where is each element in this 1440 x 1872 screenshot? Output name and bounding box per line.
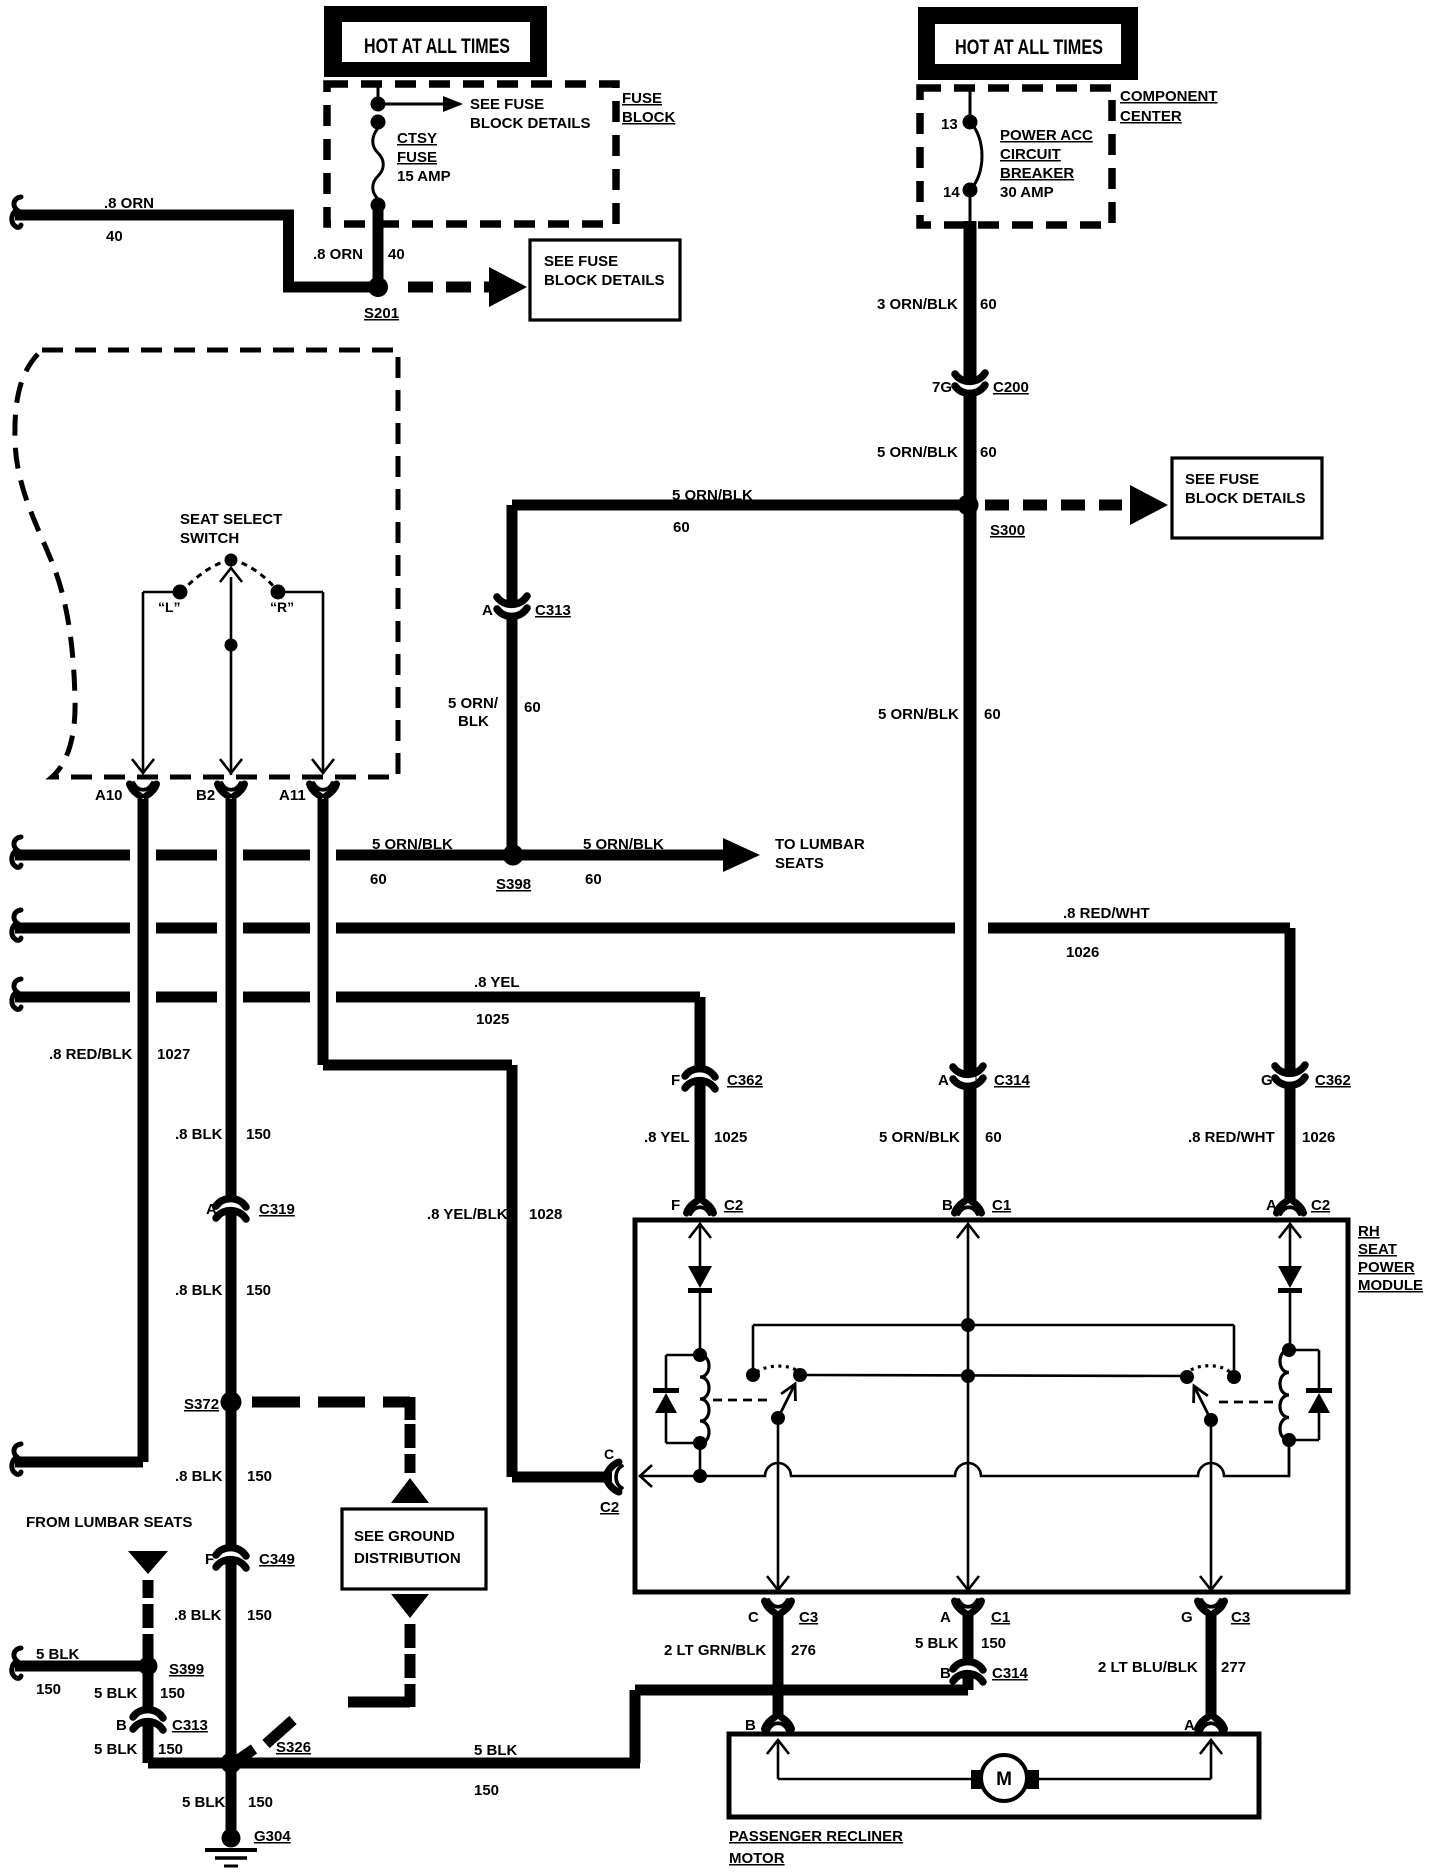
svg-text:.8 YEL: .8 YEL <box>644 1129 690 1146</box>
svg-text:150: 150 <box>247 1607 272 1624</box>
svg-text:13: 13 <box>941 116 958 133</box>
svg-text:POWER: POWER <box>1358 1259 1415 1276</box>
svg-text:C314: C314 <box>994 1072 1031 1089</box>
svg-text:B: B <box>116 1717 127 1734</box>
svg-text:POWER ACC: POWER ACC <box>1000 127 1093 144</box>
svg-text:A11: A11 <box>279 787 306 804</box>
svg-text:“R”: “R” <box>270 599 294 615</box>
svg-text:2 LT BLU/BLK: 2 LT BLU/BLK <box>1098 1659 1198 1676</box>
svg-text:276: 276 <box>791 1642 816 1659</box>
svg-text:“L”: “L” <box>158 599 181 615</box>
svg-text:150: 150 <box>160 1685 185 1702</box>
svg-text:.8 YEL: .8 YEL <box>474 974 520 991</box>
svg-text:FUSE: FUSE <box>397 149 437 166</box>
svg-text:5 BLK: 5 BLK <box>36 1646 80 1663</box>
svg-text:B: B <box>942 1197 953 1214</box>
svg-text:5 ORN/BLK: 5 ORN/BLK <box>583 836 664 853</box>
svg-text:C1: C1 <box>991 1609 1010 1626</box>
svg-text:5 ORN/BLK: 5 ORN/BLK <box>372 836 453 853</box>
svg-text:BLK: BLK <box>458 713 489 730</box>
svg-text:C: C <box>604 1446 614 1462</box>
svg-text:C314: C314 <box>992 1665 1029 1682</box>
svg-text:150: 150 <box>158 1741 183 1758</box>
svg-text:S398: S398 <box>496 876 531 893</box>
svg-text:40: 40 <box>106 228 123 245</box>
svg-text:1026: 1026 <box>1302 1129 1335 1146</box>
svg-text:SEAT SELECT: SEAT SELECT <box>180 511 282 528</box>
svg-text:A: A <box>938 1072 949 1089</box>
svg-text:MOTOR: MOTOR <box>729 1850 785 1867</box>
svg-text:C: C <box>748 1609 759 1626</box>
svg-text:5 BLK: 5 BLK <box>94 1741 138 1758</box>
svg-text:5 BLK: 5 BLK <box>182 1794 226 1811</box>
svg-text:SEE FUSE: SEE FUSE <box>1185 471 1259 488</box>
svg-text:C200: C200 <box>993 379 1029 396</box>
svg-text:60: 60 <box>984 706 1001 723</box>
svg-text:HOT AT ALL TIMES: HOT AT ALL TIMES <box>955 36 1103 59</box>
svg-text:B2: B2 <box>196 787 215 804</box>
svg-text:A: A <box>206 1201 217 1218</box>
svg-text:.8 ORN: .8 ORN <box>104 195 154 212</box>
svg-text:60: 60 <box>980 444 997 461</box>
svg-text:COMPONENT: COMPONENT <box>1120 88 1218 105</box>
svg-text:5 ORN/BLK: 5 ORN/BLK <box>672 487 753 504</box>
svg-text:MODULE: MODULE <box>1358 1277 1423 1294</box>
svg-text:C2: C2 <box>1311 1197 1330 1214</box>
svg-text:C349: C349 <box>259 1551 295 1568</box>
svg-text:A: A <box>940 1609 951 1626</box>
svg-text:BLOCK DETAILS: BLOCK DETAILS <box>1185 490 1306 507</box>
svg-text:14: 14 <box>943 184 960 201</box>
svg-text:BREAKER: BREAKER <box>1000 165 1074 182</box>
svg-text:C362: C362 <box>1315 1072 1351 1089</box>
svg-text:S372: S372 <box>184 1396 219 1413</box>
svg-text:15 AMP: 15 AMP <box>397 168 451 185</box>
svg-text:5 ORN/: 5 ORN/ <box>448 695 499 712</box>
svg-text:FUSE: FUSE <box>622 90 662 107</box>
svg-text:1027: 1027 <box>157 1046 190 1063</box>
svg-text:.8 BLK: .8 BLK <box>175 1282 223 1299</box>
svg-text:5 BLK: 5 BLK <box>474 1742 518 1759</box>
svg-text:.8 YEL/BLK: .8 YEL/BLK <box>427 1206 508 1223</box>
svg-text:RH: RH <box>1358 1223 1380 1240</box>
svg-text:1025: 1025 <box>476 1011 509 1028</box>
svg-text:C1: C1 <box>992 1197 1011 1214</box>
svg-text:F: F <box>671 1072 680 1089</box>
svg-text:.8 RED/BLK: .8 RED/BLK <box>49 1046 133 1063</box>
svg-text:B: B <box>940 1665 951 1682</box>
svg-text:C2: C2 <box>600 1499 619 1516</box>
svg-text:5 BLK: 5 BLK <box>915 1635 959 1652</box>
svg-text:CTSY: CTSY <box>397 130 437 147</box>
svg-text:.8 RED/WHT: .8 RED/WHT <box>1188 1129 1275 1146</box>
svg-text:7G: 7G <box>932 379 952 396</box>
svg-text:TO LUMBAR: TO LUMBAR <box>775 836 865 853</box>
svg-text:5 ORN/BLK: 5 ORN/BLK <box>878 706 959 723</box>
svg-text:G304: G304 <box>254 1828 291 1845</box>
svg-text:A: A <box>1266 1197 1277 1214</box>
svg-text:A: A <box>1184 1717 1195 1734</box>
svg-text:C319: C319 <box>259 1201 295 1218</box>
svg-text:C2: C2 <box>724 1197 743 1214</box>
svg-text:.8 BLK: .8 BLK <box>174 1607 222 1624</box>
svg-text:F: F <box>205 1551 214 1568</box>
svg-text:.8 BLK: .8 BLK <box>175 1468 223 1485</box>
svg-text:BLOCK DETAILS: BLOCK DETAILS <box>470 115 591 132</box>
svg-text:.8 RED/WHT: .8 RED/WHT <box>1063 905 1150 922</box>
svg-text:SEATS: SEATS <box>775 855 824 872</box>
svg-text:SEE FUSE: SEE FUSE <box>544 253 618 270</box>
svg-text:60: 60 <box>585 871 602 888</box>
svg-text:F: F <box>671 1197 680 1214</box>
svg-text:DISTRIBUTION: DISTRIBUTION <box>354 1550 461 1567</box>
svg-text:60: 60 <box>985 1129 1002 1146</box>
svg-text:60: 60 <box>370 871 387 888</box>
svg-text:5 BLK: 5 BLK <box>94 1685 138 1702</box>
svg-text:1025: 1025 <box>714 1129 747 1146</box>
svg-text:60: 60 <box>980 296 997 313</box>
svg-text:B: B <box>745 1717 756 1734</box>
svg-text:SEAT: SEAT <box>1358 1241 1397 1258</box>
svg-text:C3: C3 <box>799 1609 818 1626</box>
svg-text:BLOCK: BLOCK <box>622 109 675 126</box>
svg-text:3 ORN/BLK: 3 ORN/BLK <box>877 296 958 313</box>
svg-text:S399: S399 <box>169 1661 204 1678</box>
svg-text:C362: C362 <box>727 1072 763 1089</box>
svg-text:150: 150 <box>246 1126 271 1143</box>
svg-text:1028: 1028 <box>529 1206 562 1223</box>
svg-text:C3: C3 <box>1231 1609 1250 1626</box>
svg-text:SEE FUSE: SEE FUSE <box>470 96 544 113</box>
svg-text:1026: 1026 <box>1066 944 1099 961</box>
svg-text:C313: C313 <box>172 1717 208 1734</box>
svg-text:150: 150 <box>247 1468 272 1485</box>
svg-text:CENTER: CENTER <box>1120 108 1182 125</box>
svg-text:A: A <box>482 602 493 619</box>
svg-text:S326: S326 <box>276 1739 311 1756</box>
svg-text:60: 60 <box>673 519 690 536</box>
svg-text:150: 150 <box>36 1681 61 1698</box>
svg-text:PASSENGER RECLINER: PASSENGER RECLINER <box>729 1828 903 1845</box>
svg-text:SWITCH: SWITCH <box>180 530 239 547</box>
svg-text:A10: A10 <box>95 787 123 804</box>
svg-text:150: 150 <box>474 1782 499 1799</box>
svg-text:60: 60 <box>524 699 541 716</box>
svg-text:150: 150 <box>248 1794 273 1811</box>
svg-text:.8 ORN: .8 ORN <box>313 246 363 263</box>
svg-text:150: 150 <box>246 1282 271 1299</box>
svg-text:5 ORN/BLK: 5 ORN/BLK <box>879 1129 960 1146</box>
svg-text:BLOCK DETAILS: BLOCK DETAILS <box>544 272 665 289</box>
svg-text:40: 40 <box>388 246 405 263</box>
svg-text:FROM LUMBAR SEATS: FROM LUMBAR SEATS <box>26 1514 192 1531</box>
svg-text:CIRCUIT: CIRCUIT <box>1000 146 1061 163</box>
svg-text:5 ORN/BLK: 5 ORN/BLK <box>877 444 958 461</box>
svg-text:150: 150 <box>981 1635 1006 1652</box>
svg-text:G: G <box>1181 1609 1193 1626</box>
svg-text:G: G <box>1261 1072 1273 1089</box>
svg-text:SEE GROUND: SEE GROUND <box>354 1528 455 1545</box>
svg-text:S201: S201 <box>364 305 399 322</box>
svg-text:C313: C313 <box>535 602 571 619</box>
svg-text:.8 BLK: .8 BLK <box>175 1126 223 1143</box>
svg-text:HOT AT ALL TIMES: HOT AT ALL TIMES <box>364 35 510 58</box>
svg-text:277: 277 <box>1221 1659 1246 1676</box>
svg-text:30 AMP: 30 AMP <box>1000 184 1054 201</box>
svg-text:S300: S300 <box>990 522 1025 539</box>
svg-text:2 LT GRN/BLK: 2 LT GRN/BLK <box>664 1642 766 1659</box>
svg-text:M: M <box>996 1769 1012 1790</box>
